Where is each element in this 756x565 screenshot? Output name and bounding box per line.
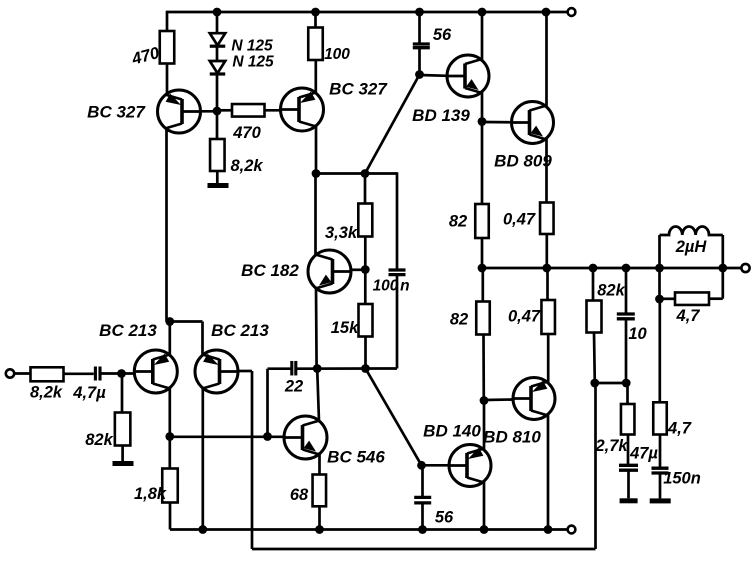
- wire output rail: [482, 267, 742, 270]
- svg-text:2,7k: 2,7k: [594, 437, 628, 455]
- wire 56p bottom cap upper lead: [421, 465, 424, 496]
- wire feedback to fb node: [594, 383, 597, 549]
- wire BC327 T1 collector down to diff pair: [165, 128, 168, 322]
- svg-text:10: 10: [628, 325, 647, 343]
- svg-text:15k: 15k: [331, 319, 359, 337]
- wire rail to diode D1: [216, 12, 219, 33]
- wire R 68 to bottom rail: [318, 506, 321, 529]
- wire R 100 to BC327 T2 emitter: [314, 60, 317, 94]
- resistor R3 8,2k: [210, 139, 225, 171]
- resistor R7 8,2k input: [31, 367, 64, 381]
- capacitor C4 56: [413, 44, 430, 48]
- svg-text:n: n: [400, 278, 409, 295]
- wire BC546 emitter to R 68: [318, 454, 321, 475]
- svg-text:BC 213: BC 213: [99, 321, 157, 340]
- wire BC182 collector up to node T: [314, 174, 317, 256]
- wire BD140 base lead: [422, 464, 450, 467]
- junction 22 cap tap on BC546 base line: [263, 432, 272, 441]
- ground ground under 47u: [620, 498, 638, 503]
- svg-text:BC 182: BC 182: [241, 261, 299, 280]
- wire BD139 emitter node to R 82: [481, 122, 484, 205]
- wire diagonal node T to BD139 base: [365, 75, 420, 174]
- wire BC182 emitter down to node B: [315, 288, 318, 369]
- wire R 0,47 to output rail: [545, 234, 548, 268]
- junction output rail / C 10: [622, 264, 631, 273]
- wire inductor left riser: [658, 235, 661, 268]
- wire BD140 emitter up: [483, 401, 486, 450]
- wire 56p top cap lower lead: [418, 49, 421, 75]
- capacitor C5 56: [414, 497, 431, 503]
- wire R 3,3k to BC182 base node: [364, 237, 367, 270]
- wire BD810 collector to bottom rail: [547, 415, 550, 530]
- junction top rail / 100 ohm: [311, 8, 320, 17]
- resistor R12 82 top: [475, 204, 489, 238]
- svg-text:BC 546: BC 546: [327, 448, 385, 467]
- junction feedback node: [590, 379, 599, 388]
- svg-text:1,8k: 1,8k: [134, 485, 167, 503]
- junction top rail / 56p cap: [415, 8, 424, 17]
- wire BD139 emitter node to BD809 base: [482, 121, 512, 124]
- svg-text:4,7: 4,7: [667, 420, 692, 438]
- resistor R11 0,47 top: [540, 203, 554, 235]
- wire BD139 collector to rail: [481, 12, 484, 60]
- wire input lead: [14, 372, 31, 375]
- transistor Q2 BC327: [281, 88, 324, 131]
- transistor Q10 BD140: [449, 445, 491, 487]
- wire R 4,7h right lead: [709, 297, 723, 300]
- svg-text:82k: 82k: [85, 431, 113, 449]
- junction bottom rail / BD140 collector: [480, 525, 489, 534]
- resistor R5 3,3k: [358, 204, 372, 237]
- wire R 8,2k to ground: [216, 171, 219, 183]
- junction top rail / diode chain: [213, 8, 222, 17]
- diode D2 N125: [210, 61, 226, 74]
- wire bias node to R 470h: [217, 109, 232, 112]
- svg-text:150n: 150n: [663, 470, 701, 488]
- junction top rail / BD139 collector: [478, 8, 487, 17]
- terminal input terminal: [6, 369, 14, 377]
- junction output rail / R 0,47: [542, 264, 551, 273]
- capacitor C7 47u: [619, 465, 638, 470]
- wire BC546 collector up to node B: [317, 369, 319, 422]
- wire negative supply rail: [170, 528, 568, 531]
- ground ground under 150n: [650, 498, 671, 503]
- transistor Q1 BC327: [158, 90, 201, 133]
- resistor R2 470: [232, 104, 265, 117]
- capacitor C1 4,7u: [95, 367, 100, 381]
- svg-text:100: 100: [373, 278, 399, 295]
- junction BD139 base node: [415, 70, 424, 79]
- junction BC182 base node: [361, 265, 370, 274]
- resistor R4 100: [308, 28, 323, 61]
- svg-text:8,2k: 8,2k: [30, 384, 63, 402]
- junction bottom rail / 56p cap: [418, 525, 427, 534]
- junction diff pair emitter node: [165, 317, 174, 326]
- wire 100n bottom lead: [396, 275, 399, 369]
- wire emitter node line: [167, 320, 203, 323]
- resistor R18 4,7: [675, 292, 709, 305]
- wire diagonal node B to BD140 base: [366, 369, 422, 466]
- svg-text:N 125: N 125: [232, 54, 274, 71]
- resistor R1 470: [160, 31, 175, 64]
- wire R 470 to BC327 T1 emitter: [166, 64, 169, 96]
- capacitor C3 22: [292, 361, 296, 376]
- svg-text:82: 82: [450, 311, 468, 329]
- svg-text:N 125: N 125: [231, 38, 273, 55]
- wire BC213 T4 collector down: [168, 388, 171, 437]
- wire BC213 T5 collector down to rail: [201, 388, 204, 530]
- wire C 10 to fb node: [625, 320, 628, 383]
- resistor R10 68: [313, 475, 327, 507]
- resistor R15 82k: [587, 301, 602, 333]
- wire R 0,47 lower to BD810 emitter: [547, 334, 550, 383]
- resistor R17 4,7: [653, 402, 667, 434]
- svg-text:8,2k: 8,2k: [230, 157, 263, 175]
- wire R 82k to fb node: [593, 333, 596, 384]
- wire output rail to R 82k right: [592, 268, 595, 301]
- inductor L1 2uH: [660, 226, 723, 235]
- wire rail to R 100: [314, 12, 317, 28]
- wire collector node to R 1,8k: [168, 437, 171, 469]
- ground ground under 82k: [113, 461, 134, 466]
- wire BC182 base node to R 15k: [364, 270, 367, 305]
- transistor Q5 BC213: [195, 350, 238, 393]
- svg-text:BD 809: BD 809: [494, 152, 552, 171]
- wire R 470h to BC327 T2 base: [265, 109, 282, 112]
- wire node T to 100n corner: [365, 172, 397, 175]
- svg-text:2µH: 2µH: [675, 238, 708, 256]
- wire C 47u to ground: [627, 471, 630, 498]
- wire R 15k to node B: [364, 337, 367, 369]
- wire R 82k to ground: [121, 446, 124, 462]
- wire fb node to R 2,7k: [626, 383, 629, 404]
- wire positive supply rail: [167, 11, 568, 14]
- svg-text:470: 470: [232, 124, 261, 142]
- svg-text:82: 82: [449, 213, 467, 231]
- wire node B line: [296, 367, 397, 370]
- junction input node: [117, 369, 126, 378]
- terminal positive supply terminal: [568, 8, 576, 16]
- junction bottom rail / BD810 collector: [544, 525, 553, 534]
- wire collector node to BC546 base: [170, 435, 284, 438]
- wire output rail to zobel node: [658, 268, 661, 299]
- junction output rail / R 82: [478, 264, 487, 273]
- transistor Q7 BD139: [447, 55, 489, 97]
- junction output rail / R 82k: [589, 264, 598, 273]
- transistor Q9 BD810: [513, 378, 555, 420]
- resistor R13 82 bottom: [476, 302, 490, 335]
- wire output rail to R 0,47 lower: [546, 268, 549, 300]
- junction node T right: [361, 169, 370, 178]
- svg-text:BD 810: BD 810: [483, 428, 541, 447]
- wire R 4,7 to C 150n: [659, 435, 662, 468]
- wire C 4,7u to BC213 T4 base: [102, 372, 135, 375]
- junction bottom rail / R 68: [315, 525, 324, 534]
- terminal output terminal: [741, 264, 749, 272]
- wire BD809 emitter to R 0,47: [545, 139, 548, 203]
- wire BD810 base lead: [484, 398, 514, 401]
- junction bottom rail / BC213 T5 collector: [198, 525, 207, 534]
- junction BD140 base node: [417, 461, 426, 470]
- capacitor C2 100n: [389, 270, 406, 275]
- wire BC213 T5 base lead: [238, 370, 252, 373]
- capacitor C6 10: [617, 314, 635, 319]
- wire 56p top cap upper lead: [418, 12, 421, 43]
- wire 56p bottom cap lower lead: [421, 504, 424, 530]
- wire bias node to BC327 T1 base: [201, 110, 218, 113]
- svg-text:BC 327: BC 327: [329, 80, 388, 99]
- resistor R9 1,8k: [162, 469, 178, 503]
- wire inductor right riser: [721, 235, 724, 268]
- svg-text:68: 68: [290, 486, 309, 504]
- svg-text:3,3k: 3,3k: [325, 224, 358, 242]
- svg-text:56: 56: [433, 26, 452, 44]
- junction bias node: [213, 107, 222, 116]
- svg-text:82k: 82k: [597, 282, 625, 300]
- wire input node to R 82k: [121, 374, 124, 413]
- transistor Q4 BC213: [134, 350, 177, 393]
- wire 22 cap left lead: [268, 367, 291, 370]
- junction zobel node: [655, 295, 664, 304]
- junction BD140 emitter node: [480, 396, 489, 405]
- junction top rail / BD809 collector: [542, 8, 551, 17]
- junction node B right: [361, 364, 370, 373]
- wire BD139 base lead: [420, 74, 448, 78]
- svg-text:BD 139: BD 139: [412, 106, 470, 125]
- wire R 4,7h riser to rail: [721, 268, 724, 299]
- svg-text:0,47: 0,47: [503, 211, 536, 229]
- junction BD139 emitter node: [478, 117, 487, 126]
- terminal negative supply terminal: [568, 526, 576, 534]
- wire feedback riser: [251, 371, 254, 549]
- wire node T line: [316, 172, 365, 175]
- junction BC213 T4 collector node: [165, 432, 174, 441]
- wire R input to C 4,7u: [64, 372, 94, 375]
- wire BC182 base lead: [351, 268, 365, 271]
- wire BC327 T2 collector to node T: [315, 126, 318, 174]
- junction output rail / inductor right: [718, 264, 727, 273]
- resistor R6 15k: [359, 304, 373, 337]
- resistor R8 82k: [115, 413, 131, 446]
- svg-text:BC 213: BC 213: [211, 321, 269, 340]
- wire BD139 emitter down: [481, 93, 484, 122]
- wire R 1,8k to bottom rail: [169, 503, 172, 530]
- svg-text:100: 100: [324, 46, 350, 63]
- svg-text:4,7µ: 4,7µ: [72, 384, 106, 402]
- wire 100n top lead: [396, 172, 399, 270]
- wire output rail to C 10: [625, 268, 628, 313]
- wire zobel node to R 4,7h: [660, 297, 676, 300]
- resistor R14 0,47 bottom: [541, 300, 555, 334]
- svg-text:4,7: 4,7: [676, 307, 701, 325]
- capacitor C8 150n: [652, 468, 669, 473]
- wire rail corner to R 470: [166, 11, 169, 31]
- wire 22 cap corner down: [266, 369, 269, 437]
- svg-text:BD 140: BD 140: [423, 422, 481, 441]
- wire node T to R 3,3k: [364, 174, 367, 204]
- svg-text:56: 56: [435, 509, 454, 527]
- wire R 82 to output rail: [481, 238, 484, 268]
- junction output rail / zobel: [655, 264, 664, 273]
- transistor Q8 BD809: [512, 102, 554, 144]
- junction node B left: [313, 364, 322, 373]
- wire fb node line: [595, 382, 628, 385]
- wire R 82 lower to BD140 emitter node: [482, 335, 485, 401]
- wire BD140 collector down: [483, 482, 486, 530]
- wire BD809 collector to rail: [545, 12, 548, 107]
- wire R 2,7k to C 47u: [627, 435, 630, 465]
- transistor Q3 BC182: [308, 250, 351, 293]
- svg-text:0,47: 0,47: [508, 308, 541, 326]
- junction node T left: [312, 169, 321, 178]
- wire zobel node to R 4,7 vertical: [658, 299, 661, 402]
- svg-text:47µ: 47µ: [629, 445, 658, 463]
- wire feedback bottom run: [252, 548, 596, 551]
- svg-text:22: 22: [284, 378, 303, 396]
- wire BC213 T5 emitter down: [201, 322, 204, 356]
- diode D1 N125: [210, 33, 226, 46]
- resistor R16 2,7k: [621, 404, 635, 435]
- wire diode D2 to bias node: [216, 76, 219, 112]
- junction fb node right: [622, 379, 631, 388]
- transistor Q6 BC546: [284, 416, 327, 459]
- wire BC213 T4 emitter up: [168, 322, 171, 356]
- ground ground under 8,2k: [208, 183, 229, 188]
- wire between diodes: [216, 48, 219, 61]
- wire output rail to R 82 lower: [481, 268, 484, 302]
- wire bias node to R 8,2k: [216, 111, 219, 139]
- wire C 150n to ground: [659, 474, 662, 498]
- svg-text:BC 327: BC 327: [87, 103, 146, 122]
